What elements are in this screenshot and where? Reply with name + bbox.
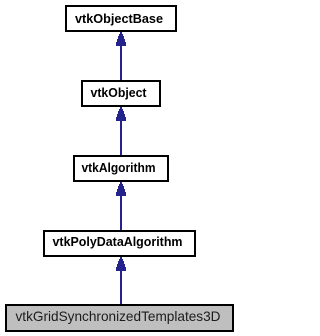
inheritance arrow vtkGridSynchronizedTemplates3D -> vtkPolyDataAlgorithm <box>116 257 126 304</box>
svg-text:vtkObjectBase: vtkObjectBase <box>75 11 163 26</box>
inheritance arrow vtkObject -> vtkObjectBase <box>116 32 126 80</box>
svg-text:vtkObject: vtkObject <box>91 85 148 100</box>
class box vtkPolyDataAlgorithm <box>44 231 195 256</box>
current class box vtkGridSynchronizedTemplates3D (gray) <box>6 305 233 331</box>
svg-text:vtkPolyDataAlgorithm: vtkPolyDataAlgorithm <box>53 234 183 249</box>
class box vtkObject <box>82 81 160 106</box>
svg-text:vtkAlgorithm: vtkAlgorithm <box>82 160 156 175</box>
class box vtkAlgorithm <box>74 156 168 181</box>
svg-text:vtkGridSynchronizedTemplates3D: vtkGridSynchronizedTemplates3D <box>16 308 221 324</box>
inheritance arrow vtkAlgorithm -> vtkObject <box>116 107 126 155</box>
inheritance arrow vtkPolyDataAlgorithm -> vtkAlgorithm <box>116 182 126 230</box>
class box vtkObjectBase <box>66 6 176 31</box>
